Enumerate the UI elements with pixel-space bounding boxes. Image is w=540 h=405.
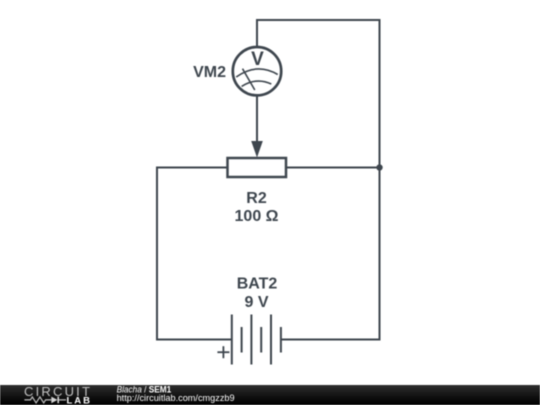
wire top horizontal [256, 19, 381, 21]
svg-text:9 V: 9 V [244, 294, 268, 311]
label 9 V [244, 294, 268, 311]
label BAT2 [237, 275, 278, 292]
arrow wiper of R2 [251, 141, 263, 158]
battery BAT2 [232, 315, 281, 365]
resistor R2 [228, 158, 287, 177]
svg-text:LAB: LAB [67, 395, 93, 405]
wire right rail lower [379, 168, 381, 341]
logo CIRCUIT text [24, 384, 92, 399]
svg-text:http://circuitlab.com/cmgzzb9: http://circuitlab.com/cmgzzb9 [117, 393, 235, 403]
wire voltmeter top lead [256, 20, 258, 47]
voltmeter VM2 [233, 47, 281, 95]
footer bar [0, 385, 540, 405]
wire battery right [281, 339, 381, 341]
wire bottom left [156, 339, 232, 341]
wire voltmeter bottom lead [256, 96, 258, 145]
footer url [117, 393, 235, 403]
logo LAB text [67, 395, 93, 405]
svg-text:VM2: VM2 [193, 64, 226, 81]
label 100 Ω [235, 208, 279, 225]
wire right rail upper [379, 19, 381, 168]
wire resistor left lead [156, 167, 228, 169]
plus sign of battery [217, 346, 229, 358]
logo resistor zigzag and diode [24, 397, 66, 404]
label VM2 [193, 64, 226, 81]
svg-text:V: V [251, 49, 264, 70]
svg-text:R2: R2 [246, 190, 267, 207]
wire left rail [156, 167, 158, 341]
wire resistor right lead [286, 167, 380, 169]
footer title Blacha / SEM1 [117, 384, 172, 394]
svg-text:BAT2: BAT2 [237, 275, 278, 292]
node junction [376, 164, 382, 170]
label R2 [246, 190, 267, 207]
svg-text:100 Ω: 100 Ω [235, 208, 279, 225]
